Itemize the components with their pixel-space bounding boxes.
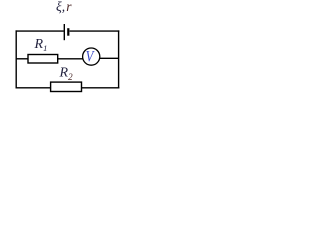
svg-text:R1: R1 bbox=[34, 37, 48, 53]
svg-text:r: r bbox=[66, 0, 72, 14]
svg-text:R2: R2 bbox=[59, 65, 74, 81]
svg-text:ξ,: ξ, bbox=[56, 0, 65, 14]
